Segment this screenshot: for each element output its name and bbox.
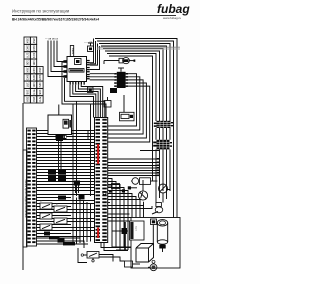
svg-text:10Б: 10Б: [38, 89, 42, 94]
svg-text:4КЧ: 4КЧ: [38, 82, 42, 87]
svg-text:1ГЛ: 1ГЛ: [25, 82, 29, 87]
svg-text:4КЧ: 4КЧ: [32, 53, 36, 58]
svg-text:—— пв: —— пв: [84, 41, 93, 44]
svg-text:рв: рв: [56, 204, 58, 206]
svg-text:пчвск: пчвск: [71, 48, 74, 55]
svg-text:1ГЛ: 1ГЛ: [25, 53, 29, 58]
svg-text:2БК: 2БК: [25, 68, 29, 74]
svg-text:3ЖЗ: 3ЖЗ: [32, 45, 36, 51]
svg-text:3ЖЗ: 3ЖЗ: [38, 74, 42, 80]
svg-text:2БК: 2БК: [25, 38, 29, 44]
svg-text:2БК: 2БК: [25, 97, 29, 103]
svg-text:болт: болт: [135, 226, 137, 231]
svg-text:Инструкция по эксплуатации: Инструкция по эксплуатации: [12, 9, 70, 14]
svg-text:4КЧ: 4КЧ: [32, 75, 36, 80]
svg-text:3ЖЗ: 3ЖЗ: [25, 74, 29, 80]
svg-text:схема цепи соединений блока: схема цепи соединений блока: [24, 180, 28, 218]
svg-text:3ЖЗ: 3ЖЗ: [25, 45, 29, 51]
svg-text:— ов ов ск: — ов ов ск: [45, 38, 59, 41]
svg-text:10Б: 10Б: [32, 60, 36, 65]
svg-text:ВН 24/96х44/Кх/55/ВВ/96/7ин/16: ВН 24/96х44/Кх/55/ВВ/96/7ин/167/165/196/…: [12, 18, 99, 22]
svg-text:10Б: 10Б: [32, 82, 36, 87]
svg-text:3ЖЗ: 3ЖЗ: [32, 67, 36, 73]
svg-text:10Б: 10Б: [25, 89, 29, 94]
svg-text:2БК: 2БК: [32, 38, 36, 44]
svg-text:2БК: 2БК: [32, 97, 36, 103]
svg-text:5ГЛ: 5ГЛ: [38, 97, 42, 102]
svg-text:fubag: fubag: [157, 2, 190, 16]
svg-text:10Б: 10Б: [25, 60, 29, 65]
svg-text:5ГЛ: 5ГЛ: [32, 90, 36, 95]
svg-text:рв: рв: [40, 201, 42, 203]
svg-text:www.fubag.ru: www.fubag.ru: [163, 16, 182, 20]
svg-text:2БК: 2БК: [38, 68, 42, 74]
